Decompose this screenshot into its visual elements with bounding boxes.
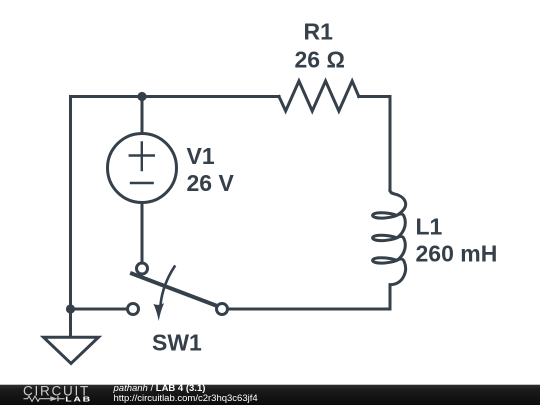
switch SW1 blade <box>132 274 217 306</box>
switch top terminal <box>137 263 148 274</box>
svg-text:L1: L1 <box>416 214 443 240</box>
svg-text:SW1: SW1 <box>152 330 202 356</box>
svg-text:260 mH: 260 mH <box>416 241 498 267</box>
V1 stem bottom to switch <box>141 203 144 263</box>
wire top rail <box>71 95 280 98</box>
svg-text:26 Ω: 26 Ω <box>295 47 345 73</box>
svg-text:R1: R1 <box>304 19 334 45</box>
svg-text:http://circuitlab.com/c2r3hq3c: http://circuitlab.com/c2r3hq3c63jf4 <box>114 393 258 404</box>
svg-text:V1: V1 <box>187 143 215 169</box>
node junction dot bottom <box>66 304 75 313</box>
wire bottom left to switch <box>71 308 127 311</box>
inductor L1 <box>373 191 406 285</box>
switch SW1 arrowhead <box>153 303 164 321</box>
V1 plus sign <box>130 142 154 170</box>
resistor R1 <box>279 81 359 111</box>
footer logo diode triangle <box>50 396 57 401</box>
svg-text:26 V: 26 V <box>187 170 235 196</box>
ground triangle <box>44 337 99 363</box>
node junction dot top <box>137 92 146 101</box>
footer logo squiggle wire <box>24 396 65 401</box>
wire resistor to corner <box>359 97 390 191</box>
switch SW1 arrow arc <box>161 267 175 306</box>
svg-text:LAB: LAB <box>65 395 91 403</box>
footer bar <box>0 385 540 405</box>
switch right terminal <box>217 304 228 315</box>
ground stem <box>69 309 72 336</box>
voltage source V1 stem top <box>141 97 144 134</box>
voltage source V1 circle <box>108 134 177 203</box>
wire right rail bottom <box>228 285 391 309</box>
V1 minus sign <box>131 182 153 184</box>
switch left terminal <box>128 304 139 315</box>
wire left rail <box>69 97 72 310</box>
